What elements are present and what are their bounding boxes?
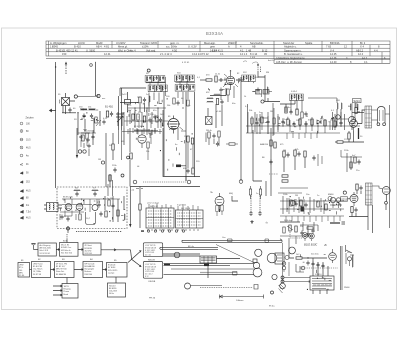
pulley P5 (272, 274, 277, 279)
IF tube B2 circle (226, 76, 234, 84)
wire: box leads (252, 92, 272, 98)
svg-text:AB 4: AB 4 (96, 45, 102, 49)
detector coil S17 (297, 94, 304, 101)
phono jack J2 (309, 233, 315, 239)
svg-text:B6 EABC80: B6 EABC80 (85, 265, 95, 268)
wire: rails (341, 150, 362, 157)
tone cap C44 (300, 231, 303, 236)
B12 electrodes (330, 249, 335, 263)
cap C17b (266, 120, 269, 125)
circled wave symbol b (187, 180, 191, 184)
screen resistor R50 (355, 108, 357, 114)
svg-text:1 48: 1 48 (246, 48, 252, 52)
terminal E1 circled (74, 95, 77, 98)
fuse resistor R60 (296, 257, 302, 259)
bottom rail y131 (122, 131, 162, 133)
svg-text:12 4: 12 4 (362, 56, 368, 60)
fork to lower dial box (132, 259, 141, 266)
svg-text:f +Ω: f +Ω (130, 190, 134, 192)
svg-text:B3X34A: B3X34A (330, 41, 340, 45)
pushbutton indicator 4 (168, 230, 170, 232)
wire: x163 long vertical (163, 128, 200, 177)
detector bus unresolved parts (252, 116, 336, 134)
FM tuner dashed enclosure (57, 187, 127, 229)
wire: below tube (352, 206, 356, 217)
wire: to rectifier (302, 257, 327, 259)
coil S30 (124, 214, 125, 220)
cord bar lower (200, 272, 237, 276)
cap C25 (91, 135, 94, 140)
wire: bottom rail y142 (335, 141, 364, 143)
svg-text:S 414: S 414 (291, 91, 297, 93)
LS1 inner lines (380, 110, 384, 121)
B6 electrodes (77, 206, 82, 208)
switch leads (346, 257, 350, 266)
dial glass top bar (182, 239, 282, 243)
wire: S18 drops (337, 109, 341, 126)
wire: x130 drop (129, 128, 131, 187)
eye leads (330, 203, 342, 209)
FM dipole antenna dashed (258, 64, 261, 72)
cluster resistor R6 (132, 114, 134, 120)
svg-text:EABC80: EABC80 (260, 143, 269, 146)
wire: AVC vertical x106 (105, 133, 107, 187)
wire: fm inner rail y212 (60, 211, 84, 213)
wire: r35 leads (226, 143, 238, 145)
det diode D1 (317, 120, 321, 124)
block box T1 (38, 243, 56, 256)
knot resistor a (334, 121, 336, 127)
coupling parts column (347, 153, 351, 172)
wire: heater run (288, 262, 290, 276)
electrolytic pair b (259, 189, 261, 195)
pot dashes (269, 173, 278, 175)
small box part (125, 100, 131, 105)
svg-text:TA TB: TA TB (64, 285, 70, 288)
svg-text:8 4 14: 8 4 14 (250, 52, 258, 56)
circled wave symbol a (133, 180, 137, 184)
svg-text:Toleranz ±20%: Toleranz ±20% (140, 41, 158, 45)
tube B3 circle (348, 116, 355, 123)
detector coil S16 (290, 94, 297, 101)
tube B1 pin stubs (169, 127, 183, 130)
wire: rail y216 (280, 215, 344, 217)
svg-text:Cm: Cm (222, 237, 226, 239)
block text T2 (61, 245, 72, 255)
AM osc cluster tube B4 (138, 135, 146, 143)
wire: row link (224, 79, 243, 81)
ground sym (250, 220, 253, 223)
coil S19 (341, 103, 342, 109)
svg-text:Meet-app.: Meet-app. (204, 41, 216, 45)
pot dashed link (290, 232, 302, 238)
table row line 2 (46, 47, 390, 49)
resistor R27 (191, 138, 193, 144)
legend symbol: tick row 10 (20, 197, 23, 200)
pulley P2 (174, 252, 180, 258)
oscillator coil S2 (89, 110, 95, 111)
fm bottom parts (60, 215, 63, 220)
svg-text:14 40: 14 40 (330, 60, 337, 64)
resistor R14c (273, 118, 275, 124)
AF transformer T3 windings (352, 103, 355, 122)
scale measure bar (220, 295, 264, 299)
wire: T2 drops (208, 104, 222, 128)
resistor R22 (82, 135, 84, 141)
wire: vertical x368 (367, 205, 369, 230)
wire: IF can vertical drops (164, 92, 194, 181)
resistor R13 (227, 89, 229, 95)
B2 base dark (229, 83, 233, 85)
svg-text:gem: gem (210, 46, 215, 49)
annotation curl (252, 62, 258, 64)
svg-text:Servicedok.: Servicedok. (250, 41, 264, 45)
legend symbol: circle row 4 (20, 146, 23, 149)
block text M1 (19, 265, 24, 277)
resistor R41 (300, 200, 302, 206)
circled pair terminal (343, 191, 346, 194)
IF transformer S10 bottom row (175, 85, 182, 92)
svg-text:4 x 4: 4 x 4 (130, 48, 136, 52)
screw terminal (271, 291, 274, 294)
svg-text:B6 EABC80: B6 EABC80 (56, 273, 66, 276)
svg-text:U. 6,3V: U. 6,3V (188, 45, 197, 49)
tone network stubs (286, 216, 340, 222)
mixer grid resistor R5 (139, 97, 141, 103)
wire: speaker tail (385, 113, 390, 115)
B1 electrodes (167, 116, 180, 134)
svg-text:AB: AB (252, 45, 256, 49)
wire: y102 link right (264, 98, 280, 102)
svg-text:20kΩ/V: 20kΩ/V (228, 41, 237, 45)
FM bottom parts (60, 214, 76, 220)
small square part (253, 259, 257, 263)
arrows into B1 (53, 285, 62, 296)
handwritten mark (243, 61, 247, 62)
title block table outer frame (46, 41, 390, 56)
wire: y133 rail (246, 132, 280, 134)
wire: can2 cell drop c (187, 92, 189, 99)
svg-text:S5 S6: S5 S6 (19, 275, 24, 277)
grid resistor R8 (137, 114, 139, 120)
wire: links (81, 139, 87, 147)
wire: long vertical x241 (240, 77, 242, 181)
wire: AF bus upper (280, 200, 344, 202)
svg-text:4 1: 4 1 (240, 48, 244, 52)
wire: vertical x253 (253, 130, 262, 181)
svg-text:14 1 4: 14 1 4 (240, 52, 248, 56)
knot resistor (307, 227, 313, 229)
svg-text:SK 1-12: SK 1-12 (150, 206, 159, 208)
svg-text:6BQ: 6BQ (229, 193, 234, 195)
svg-text:50 Hz: 50 Hz (109, 293, 114, 295)
dipole arrowheads (257, 63, 259, 66)
block text T3 (85, 244, 93, 255)
electrolytic C62 (306, 261, 309, 266)
wire: dashed drop to blocks (66, 234, 68, 242)
cap C11b (176, 101, 179, 106)
output transformer T4 (365, 106, 372, 128)
T1 leads (63, 93, 75, 114)
feedback parts (312, 156, 315, 161)
fm resistor R33 (108, 200, 110, 206)
LS1 pole circles (377, 123, 380, 126)
legend symbol: tick row 8 (20, 181, 23, 184)
wire: cathode drops (349, 131, 354, 142)
cap C24 (86, 138, 89, 143)
RC group a (283, 151, 285, 157)
svg-text:Endstufe: Endstufe (108, 264, 115, 267)
drive bracket (275, 253, 284, 264)
wire: hf bus y126 (246, 125, 360, 127)
wire: AF bus lower (280, 208, 344, 210)
svg-text:u5 40: u5 40 (216, 111, 222, 113)
FM tuner unresolved parts (60, 198, 125, 224)
dial box D2 (143, 262, 162, 279)
legend symbol: tick row 12 (20, 210, 23, 213)
S10 frame (176, 82, 196, 84)
resistor R43 (325, 204, 327, 210)
svg-text:Modif.: Modif. (96, 41, 103, 45)
resistor R24 (109, 175, 111, 181)
svg-text:Spalte: Spalte (305, 41, 313, 45)
wire: lower web (124, 116, 168, 128)
B11 electrodes (351, 192, 356, 206)
AF takeoff parts (108, 180, 113, 196)
wire: LS2 stem (385, 195, 387, 211)
B8 anode resistor (221, 205, 223, 211)
block text T1 (40, 244, 51, 255)
svg-text:4 1: 4 1 (364, 60, 368, 64)
pushbutton indicator 1 (147, 230, 149, 232)
block box B2 (108, 283, 126, 297)
block box T3 (83, 243, 101, 255)
wire: top edge y193 (278, 192, 302, 194)
mixer tube B1 circle (168, 119, 179, 130)
svg-text:Abgleich u.: Abgleich u. (284, 45, 297, 49)
junction dots (134, 107, 135, 108)
arrow M1-M2 (30, 269, 32, 271)
osc extra wires (134, 128, 158, 134)
pulley P1 (289, 247, 296, 254)
svg-text:2M 4u: 2M 4u (206, 130, 213, 132)
title block heavy bottom rule (46, 57, 390, 59)
wire: tube anode to trafo (357, 110, 365, 124)
resistor R48 (282, 180, 288, 182)
wire: vertical link (207, 262, 209, 278)
svg-text:12 4 41 5: 12 4 41 5 (212, 48, 223, 52)
wire: drops (284, 156, 305, 172)
wire: det leads (280, 101, 295, 112)
B2 top node dot (230, 70, 231, 71)
FM osc tube B7 (92, 205, 98, 211)
svg-text:B3X34A: B3X34A (206, 31, 223, 36)
pushbutton indicator 2 (154, 230, 156, 232)
resistor R45 (270, 140, 272, 146)
switch tick marks below (148, 229, 198, 231)
svg-text:46,5: 46,5 (26, 191, 31, 193)
link M3 to B1 (66, 278, 68, 284)
wire: osc drops (188, 142, 193, 168)
resistor R40 (290, 200, 292, 206)
box coils (49, 204, 50, 210)
block text M4 (85, 262, 95, 275)
svg-text:B102 B10C: B102 B10C (304, 243, 317, 247)
svg-text:a1 b2 c1 d2 e1: a1 b2 c1 d2 e1 (147, 202, 159, 204)
resistor R32 (139, 204, 141, 210)
resistor R14b (261, 117, 263, 123)
legend symbol: tick row 6 (20, 163, 23, 165)
legend symbol: circle row 3 (20, 138, 23, 141)
AF stage unresolved parts (287, 196, 341, 214)
wire: dashed drop A (250, 196, 252, 212)
cathode resistor R51 (348, 133, 350, 139)
D1 inner text (145, 245, 156, 256)
arrow down terminal (76, 155, 78, 159)
block text B1 (64, 285, 71, 296)
B4 electrodes (139, 130, 145, 148)
phono jack J1 (302, 233, 308, 239)
wire: rail y216.5 (349, 216, 368, 218)
cord line m2 (164, 264, 255, 266)
svg-text:B 410: B 410 (74, 45, 81, 49)
LS2 inner (384, 189, 389, 192)
svg-text:7 65: 7 65 (326, 45, 332, 49)
wire: branch y95 (210, 88, 226, 96)
wire: x140 drop (139, 187, 141, 205)
terminal E2 circled (97, 94, 100, 97)
svg-text:Stand der: Stand der (283, 41, 294, 45)
circled terminal k (101, 161, 104, 164)
resistor R10 (206, 79, 212, 81)
wire: trafo2 to LS2 (372, 186, 382, 189)
wire: can1 cell drop c (158, 93, 160, 105)
electrolytic C63 (311, 262, 314, 267)
capacitor C3 below S2 (90, 114, 93, 119)
heavy chassis dash (330, 222, 340, 224)
magic eye tube B9 (330, 197, 335, 202)
drum plate (200, 256, 217, 263)
table row line 1 (46, 44, 390, 46)
wire: gang line extension (121, 130, 123, 160)
svg-text:4 12 14 8 5 12: 4 12 14 8 5 12 (192, 52, 209, 56)
grid cap C11 (148, 118, 151, 123)
cathode resistor R54 (351, 207, 353, 213)
electrolytic dark bar (358, 128, 360, 139)
block box M4 (83, 262, 103, 278)
svg-text:NT 410: NT 410 (315, 274, 322, 276)
svg-text:X 4: X 4 (360, 45, 364, 49)
resistor R52 (354, 157, 356, 163)
bus components cluster a (255, 103, 278, 136)
RC group c (304, 151, 306, 157)
det cap C18b (304, 112, 307, 117)
circlet contact (127, 156, 130, 159)
wavechange switch block SK1 (146, 208, 174, 228)
wire: drops from cluster (140, 102, 149, 112)
node dot (307, 257, 308, 258)
svg-text:14 45: 14 45 (330, 52, 337, 56)
svg-text:V 4: V 4 (330, 48, 334, 52)
RC group b (294, 150, 296, 156)
knot parts (331, 112, 348, 130)
svg-text:NF Vorstufe: NF Vorstufe (85, 262, 95, 265)
cord line m1 (163, 254, 200, 256)
legend symbol: tick row 9 (20, 190, 23, 193)
resonant line loop (86, 212, 96, 225)
coil S11 (149, 96, 150, 102)
dial box D1 (143, 243, 162, 257)
circled junction J (239, 180, 243, 184)
volume pot P2 (295, 226, 297, 232)
switch top lead stubs (149, 203, 198, 210)
SK2 contact dots (178, 213, 202, 225)
tuning cap C27 (87, 144, 90, 149)
osc coil parts right (178, 128, 186, 140)
wire: L link (232, 196, 238, 201)
block box B1 (62, 284, 78, 299)
B5 electrodes (66, 206, 71, 208)
transformer box T2 with X (206, 117, 213, 125)
bandpass box a (256, 90, 262, 95)
wire: cluster vertical drops (78, 111, 100, 135)
bottom right pulley (280, 283, 286, 289)
cap C52 (357, 160, 360, 165)
svg-text:A. Wijzigingen: A. Wijzigingen (50, 41, 67, 45)
svg-text:4 12 41: 4 12 41 (182, 62, 190, 64)
svg-text:4x4 1a: 4x4 1a (268, 60, 275, 62)
svg-text:1n 15k: 1n 15k (107, 198, 114, 200)
wire: x140 lower (139, 210, 141, 228)
svg-text:4 50: 4 50 (172, 48, 178, 52)
arrow T3 onward (101, 249, 131, 251)
wire: gang line 2 extension (118, 130, 120, 144)
resistor R31 (117, 210, 119, 216)
svg-text:PH 4b: PH 4b (149, 298, 156, 300)
cap C12 (219, 78, 224, 81)
resistor R8c (187, 100, 189, 106)
link M5 to B2 (115, 277, 117, 283)
svg-text:AM 510-1620: AM 510-1620 (40, 247, 51, 250)
volume pot P1 (289, 225, 291, 231)
antenna A1 arrowhead (65, 62, 67, 65)
IF transformer S12 cell (242, 75, 249, 82)
T6 internal windings (312, 279, 332, 289)
wire: transformer drops (313, 258, 328, 276)
bandswitch dashes (143, 181, 186, 183)
wire: avc links (206, 133, 219, 147)
resistor R35 horizontal (229, 143, 235, 145)
AVC cap C22 (216, 142, 219, 147)
svg-text:A.B.Osz. u. ZF-Kurven: A.B.Osz. u. ZF-Kurven (276, 60, 303, 64)
cluster resistor R7 (143, 116, 145, 122)
dashed link from FM exit (66, 239, 68, 243)
table right-extension rows (274, 52, 390, 64)
ferrite antenna transformer T1 (62, 98, 70, 106)
osc cap C37 (149, 132, 152, 137)
extra bus verticals (283, 117, 330, 133)
svg-text:KB-DB: KB-DB (149, 281, 156, 283)
arrow M3-M4 (74, 269, 83, 271)
cap C26 (113, 168, 116, 173)
svg-text:Volt wrd.: Volt wrd. (146, 48, 156, 52)
svg-text:PH06: PH06 (344, 287, 350, 289)
block text M2 (33, 262, 43, 275)
agc resistor Rx (86, 133, 88, 139)
tick marks on link (136, 188, 143, 190)
block text M3 (56, 262, 67, 275)
wire: can2 cell drop a (177, 92, 179, 98)
